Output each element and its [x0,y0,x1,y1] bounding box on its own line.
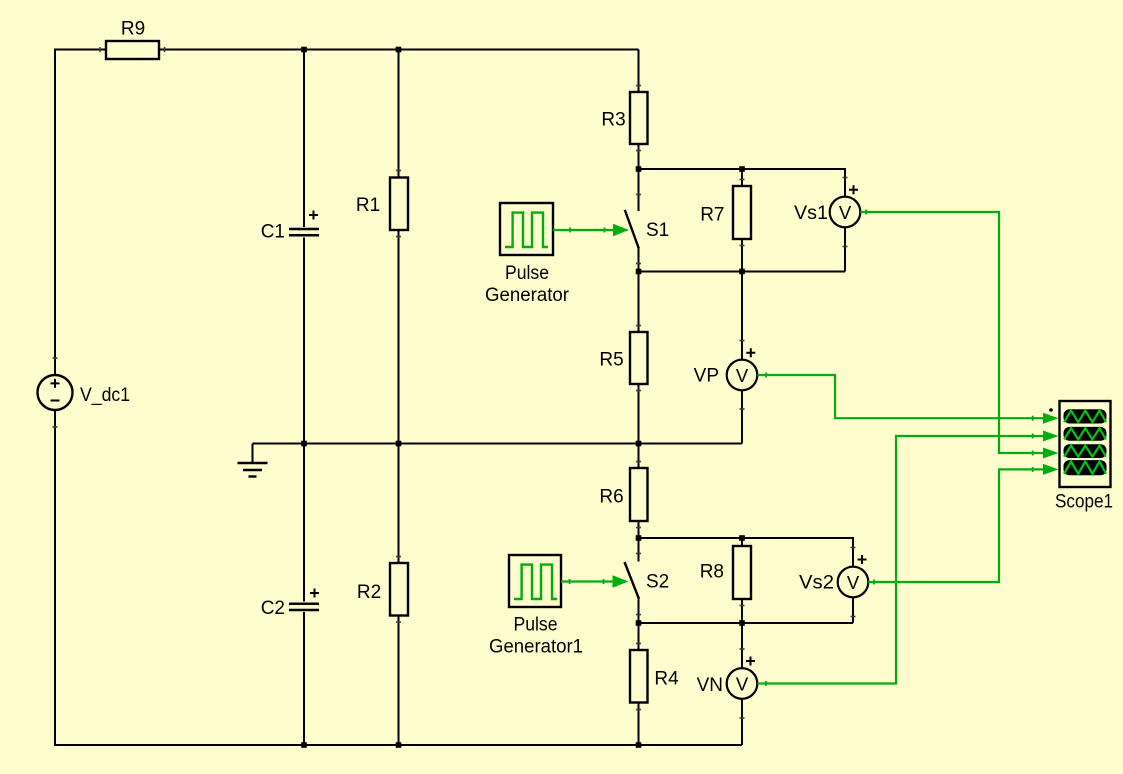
svg-text:R6: R6 [599,487,623,508]
wire: Vs1 branch vertical [844,168,846,272]
node junction dots [301,47,745,748]
ground [238,444,268,477]
voltmeter Vs1 [794,185,860,227]
wire: node S1-bottom horizontal (R7/Vs1 bottom) [639,271,846,273]
svg-text:V: V [847,572,860,593]
wire: node S1-top horizontal (to R7 and Vs1) [639,168,846,170]
wire: green VN to scope input 2 [757,436,1044,684]
wire: green Vs2 to scope input 4 [868,469,1044,582]
svg-text:S2: S2 [646,572,669,593]
svg-text:R9: R9 [121,19,145,40]
resistor R2 [357,563,408,616]
svg-text:R2: R2 [357,582,381,603]
wire: R1-R2 column [398,50,400,746]
svg-text:VP: VP [694,366,719,387]
svg-text:C1: C1 [261,222,285,243]
svg-text:V: V [839,202,852,223]
resistor R1 [356,178,408,231]
wire: middle column upper (R3 to S1 top contact) [638,50,640,212]
voltmeter Vs2 [799,555,868,597]
wire: node S2-top horizontal (to R8 and Vs2) [639,537,854,539]
svg-text:V: V [736,365,749,386]
svg-text:C2: C2 [261,598,285,619]
wire: green control PG1 to S1 [553,224,629,237]
svg-text:V_dc1: V_dc1 [80,385,130,406]
resistor R5 [599,332,647,384]
svg-text:Vs2: Vs2 [799,573,834,594]
wire: R8 branch vertical [741,538,743,623]
capacitor C1 [261,211,319,243]
svg-text:Scope1: Scope1 [1055,492,1113,513]
wire: R7 branch vertical [741,169,743,272]
svg-text:VN: VN [697,675,723,696]
svg-text:Vs1: Vs1 [794,203,828,224]
wire: Vs2 branch vertical [852,537,854,623]
pulse generator PG2 [489,555,583,658]
scope input arrow 4 [1032,464,1059,475]
switch S2 [625,562,670,599]
wire: VN branch vertical [741,623,743,745]
oscilloscope Scope1 [1049,401,1113,513]
pin ticks [53,47,875,719]
svg-text:S1: S1 [646,220,669,241]
wire: bottom rail [54,744,742,746]
pulse generator PG1 [485,203,570,306]
wire: middle column lower (S2 bottom to bottom rail) [638,599,640,746]
wire: green VP to scope input 1 [757,375,1044,418]
svg-text:R5: R5 [599,350,623,371]
wire: green control PG2 to S2 [561,575,629,588]
wire: node S2-bottom horizontal (R8/Vs2 bottom) [639,622,854,624]
svg-text:Generator: Generator [485,285,570,306]
svg-text:R4: R4 [654,669,679,690]
svg-text:V: V [736,673,749,694]
scope input arrow 1 [1032,413,1059,424]
wire: green Vs1 to scope input 3 [860,212,1044,453]
voltmeter VN [697,657,758,699]
wire: VP branch vertical [741,272,743,444]
svg-text:R3: R3 [601,110,625,131]
resistor R8 [700,546,751,599]
voltage source V_dc1 [38,375,131,410]
capacitor C2 [261,589,319,620]
resistor R3 [601,92,647,144]
svg-text:R1: R1 [356,195,380,216]
svg-text:R7: R7 [700,205,724,226]
svg-text:R8: R8 [700,562,724,583]
svg-text:Pulse: Pulse [505,263,549,284]
resistor R4 [630,650,679,703]
wire: top rail [55,49,639,51]
scope input arrow 3 [1032,448,1059,459]
svg-text:Pulse: Pulse [514,615,558,636]
scope input arrow 2 [1032,431,1059,442]
voltmeter VP [694,348,758,390]
resistor R9 [106,19,159,60]
resistor R7 [700,186,751,239]
svg-text:Generator1: Generator1 [489,637,583,658]
wire: left rail [54,49,56,746]
wire: ground rail [253,443,743,445]
wire: middle column mid (S1 bottom to S2 top contact) [638,248,640,562]
wire: capacitor column C1-C2 [303,50,305,746]
resistor R6 [599,468,647,521]
switch S1 [625,210,669,249]
